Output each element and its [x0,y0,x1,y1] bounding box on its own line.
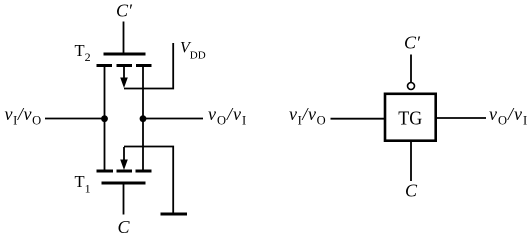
wire C' to T2 gate [123,22,125,54]
svg-text:C′: C′ [404,33,421,53]
wire input (right symbol) [331,118,385,120]
wire C to box (right symbol) [410,142,412,182]
transmission gate box TG [385,94,436,141]
transistor T2 [97,54,152,88]
svg-text:vO/vI: vO/vI [208,104,247,128]
node output junction dot [140,115,147,122]
wire output (right symbol) [437,117,487,119]
svg-text:C: C [118,217,131,237]
wire T1 gate to C [123,185,125,215]
wire T2 body to VDD [124,43,173,89]
wire T1 body to ground [124,147,173,213]
svg-text:C′: C′ [116,1,133,21]
node input junction dot [101,115,108,122]
inverter bubble [408,83,415,90]
wire output (left circuit) [143,118,203,120]
svg-text:C: C [405,181,418,201]
wire right channel (T2 drain to T1 drain) [142,66,144,172]
ground symbol [161,213,188,216]
svg-text:TG: TG [398,107,422,129]
wire input (left circuit) [45,118,104,120]
wire left channel (T2 source to T1 source) [104,66,106,172]
transistor T1 [97,147,152,183]
wire C' to bubble (right symbol) [410,55,412,83]
svg-text:vO/vI: vO/vI [489,104,528,128]
